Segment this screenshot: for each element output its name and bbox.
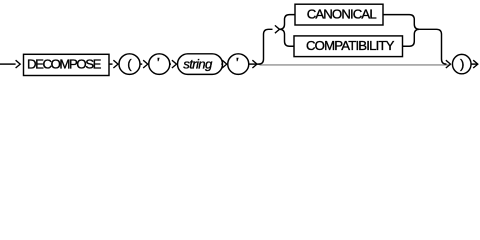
wire [140,63,142,65]
keyword box COMPATIBILITY [294,36,403,57]
arrowhead into ) [446,60,451,68]
svg-text:CANONICAL: CANONICAL [307,6,377,21]
delimiter circle ) [452,54,471,73]
svg-text:COMPATIBILITY: COMPATIBILITY [306,38,395,53]
delimiter circle ' [228,54,249,75]
wire [221,63,222,65]
arrowhead into DECOMPOSE [16,60,21,68]
wire [109,63,113,65]
label ' [236,58,238,62]
arrowhead into string [172,60,177,68]
wire [170,63,171,65]
arrowhead into ( [113,60,118,68]
svg-text:string: string [183,57,213,72]
delimiter circle ( [119,54,140,75]
wire riser up from main line to option level [259,29,273,64]
wire split down to COMPATIBILITY [280,29,295,46]
wire COMPATIBILITY to merge [403,29,420,46]
operand oval string [178,54,223,75]
label ' [157,58,159,62]
wire start [0,63,16,65]
svg-text:): ) [460,57,464,72]
wire CANONICAL to merge [383,15,419,30]
svg-text:(: ( [127,57,132,72]
wire merge down to main line [419,29,446,64]
arrowhead into ' [222,60,227,68]
wire bypass skip segment [260,64,451,66]
arrowhead into ' [143,60,148,68]
arrowhead at option split [275,25,280,33]
keyword box CANONICAL [295,4,383,25]
svg-text:DECOMPOSE: DECOMPOSE [27,57,102,72]
wire split up to CANONICAL [280,15,296,30]
wire bypass [249,63,260,65]
keyword box DECOMPOSE [24,54,110,75]
arrowhead end [473,60,478,68]
delimiter circle ' [149,54,170,75]
wire end [471,63,477,65]
arrowhead on bypass after quote [252,60,257,68]
